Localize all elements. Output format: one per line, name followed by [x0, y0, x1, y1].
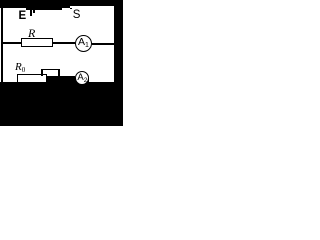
battery E long plate — [30, 9, 31, 16]
wire top-middle thick segment (battery area) — [26, 6, 62, 10]
node bottom black region center — [40, 78, 89, 126]
ammeter A1 — [75, 35, 92, 52]
wire right bus bar (frame right side) — [114, 0, 123, 126]
ammeter A2 — [75, 71, 89, 85]
wire left frame side — [1, 6, 3, 82]
rheostat slider rail horizontal — [41, 69, 60, 71]
label E — [19, 10, 27, 22]
label R0 — [15, 61, 25, 74]
node bottom black region left — [0, 82, 47, 126]
wire top bus bar (merged with frame top) — [0, 0, 123, 6]
wire bottom branch into A2 — [47, 76, 75, 78]
wire top-left thick segment — [0, 6, 26, 8]
label S — [73, 9, 81, 21]
resistor R — [21, 38, 53, 47]
node bottom black region right — [89, 82, 123, 126]
wire slider drop to bottom branch — [58, 69, 60, 80]
switch S terminal dot — [70, 8, 72, 10]
wire top segment to switch — [62, 6, 70, 8]
label R — [28, 26, 35, 41]
rheostat slider arm vertical — [41, 69, 43, 76]
battery E short plate — [33, 9, 35, 13]
rheostat R0 body — [17, 74, 47, 83]
wire middle branch right — [92, 43, 115, 45]
wire middle branch left — [3, 42, 21, 44]
wire middle branch center — [53, 42, 75, 44]
